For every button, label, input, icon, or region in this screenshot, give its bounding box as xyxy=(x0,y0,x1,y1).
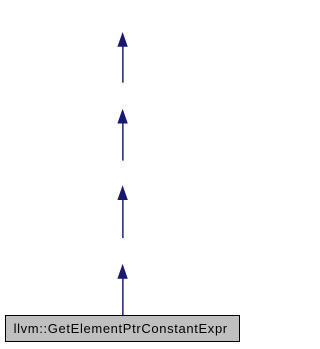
inheritance arrow 1 (topmost, pointing up) xyxy=(117,32,127,83)
inheritance arrow 2 (pointing up) xyxy=(117,109,127,161)
inheritance arrow 4 (bottom, pointing up from class node) xyxy=(117,264,127,316)
svg-text:llvm::GetElementPtrConstantExp: llvm::GetElementPtrConstantExpr xyxy=(14,321,228,336)
inheritance arrow 3 (pointing up) xyxy=(117,185,127,238)
class node llvm::GetElementPtrConstantExpr (current class, grey box) xyxy=(6,316,240,342)
